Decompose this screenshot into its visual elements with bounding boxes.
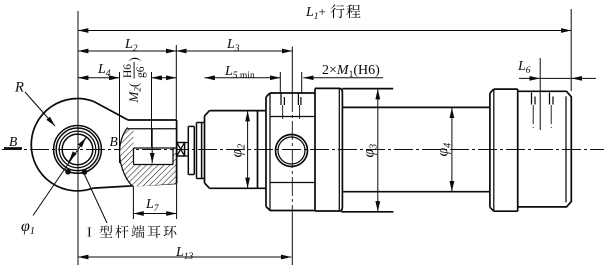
eye concentric circles (62, 134, 93, 165)
L6 dimension (539, 58, 541, 130)
neck bottom line (93, 183, 176, 188)
2xM1 leader (303, 77, 383, 79)
block right edge (176, 120, 178, 184)
label phi2 rotated (229, 144, 248, 158)
port centerlines (279, 72, 281, 93)
phi2 dimension (247, 111, 249, 188)
rod collar 2 (196, 123, 198, 179)
svg-text:g6: g6 (135, 66, 147, 78)
M2 extension lines (151, 72, 153, 147)
L2 dimension (175, 45, 177, 120)
svg-text:B: B (110, 134, 118, 149)
label phi4 rotated (435, 143, 454, 157)
eye ring label leader (85, 175, 108, 224)
tube phi3 section (342, 88, 393, 90)
svg-text:+: + (319, 4, 326, 19)
section B-B thick stroke (4, 147, 22, 150)
svg-text:R: R (14, 80, 24, 96)
phi1 leader through bore (33, 137, 87, 216)
L3 dimension (176, 50, 292, 52)
svg-text:B: B (9, 134, 17, 149)
thread cavity (134, 147, 177, 149)
rod collar 1 (187, 126, 189, 174)
svg-text:): ) (126, 57, 141, 61)
svg-text:H6: H6 (122, 64, 134, 78)
head block outline (265, 97, 267, 207)
L13 dimension (78, 256, 291, 258)
R leader (25, 92, 55, 126)
rear cap (518, 91, 572, 207)
gland left edge with chamfers (204, 116, 206, 183)
svg-text:M2(: M2( (126, 83, 143, 104)
svg-text:I: I (87, 226, 92, 241)
M2 leader arrow into thread (151, 129, 153, 163)
block top edges (128, 119, 177, 121)
label M2(H6/g6) rotated (122, 57, 147, 103)
neck top line (93, 101, 127, 120)
L5min dimension (205, 77, 281, 79)
rear flange (489, 93, 491, 207)
port 1 thread marks (280, 94, 282, 106)
rod core lines (185, 142, 189, 144)
L7 dimension (132, 187, 134, 220)
hatch of broken-out section (120, 129, 177, 187)
boss centerline (291, 47, 293, 94)
head block inner edges (269, 93, 271, 211)
L1+stroke dimension (570, 9, 572, 91)
wavy break line (120, 128, 134, 187)
phi4 dimension (451, 108, 453, 192)
label phi3 rotated (361, 144, 380, 158)
horizontal centerline (2, 149, 604, 151)
vertical centerline of eye / left extension line (77, 11, 79, 265)
wrench square with cross (177, 143, 185, 157)
L4 dimension (119, 72, 121, 163)
gland top and bottom (210, 110, 267, 112)
port boss circle (276, 135, 308, 167)
gland step line (257, 111, 259, 189)
phi3 dimension (377, 89, 379, 212)
M2 thread dimension arrows (152, 77, 177, 79)
eye housing outer arc (31, 98, 93, 190)
rear port thread marks (531, 93, 533, 105)
bearing dots (65, 169, 71, 175)
tube phi4 section (342, 106, 490, 108)
front flange (315, 88, 342, 211)
port 2 thread marks (297, 94, 299, 106)
